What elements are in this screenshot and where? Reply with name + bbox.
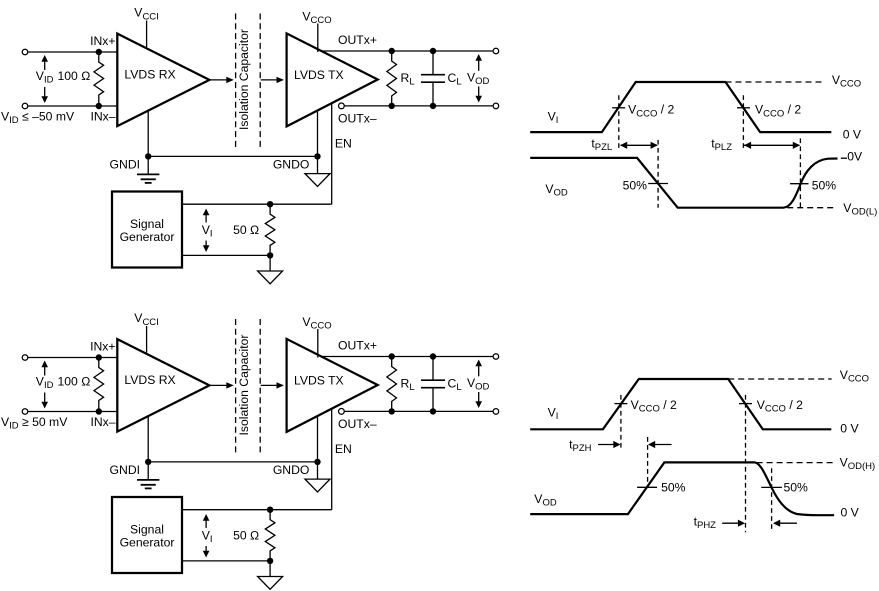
label VID (circuit 1) [34,70,55,87]
dashed marker VOD falling 50% (timing 1) [657,140,659,208]
svg-text:GNDO: GNDO [273,158,310,172]
LVDS RX amplifier U1a (circuit 1) [117,34,209,127]
wire: generator bottom output (circuit 2) [182,560,270,562]
node CL bottom (circuit 1) [430,103,436,109]
VI measurement arrow (circuit 1) [205,214,207,248]
tick 50% rising (timing 1) [790,183,808,185]
wire: OUTx+ (circuit 1) [321,50,492,52]
label VI (circuit 1) [200,223,213,241]
dashed marker VOD rising 50% (timing 1) [799,138,801,207]
svg-text:EN: EN [335,442,352,456]
svg-text:100 Ω: 100 Ω [58,69,91,83]
VI measurement arrow (circuit 2) [205,519,207,553]
resistor 50 Ohm (circuit 1) [265,204,275,255]
node RL bottom (circuit 1) [389,103,395,109]
resistor RL (circuit 2) [387,357,397,412]
tick VCCO/2 rising (timing 1) [612,107,625,109]
tick 50% falling (timing 2) [761,486,782,488]
chassis ground below 50 Ohm (circuit 2) [269,561,271,577]
node 50 Ohm bottom (circuit 1) [267,252,273,258]
dashed level VOD(L) (timing 1) [787,207,836,209]
svg-text:INx–: INx– [90,110,115,124]
label VID (circuit 2) [34,376,55,393]
svg-text:INx–: INx– [90,415,115,429]
tPZH arrow right (timing 2) [654,444,672,446]
svg-text:EN: EN [335,137,352,151]
OUTx- inversion bubble (circuit 1) [339,103,345,109]
wire: TX ground lead (circuit 1) [317,110,319,156]
node INx- junction (circuit 2) [96,408,102,414]
earth ground GNDI (circuit 1) [147,156,149,174]
svg-text:100 Ω: 100 Ω [58,375,91,389]
svg-text:Isolation Capacitor: Isolation Capacitor [237,29,251,130]
LVDS TX amplifier U2b (circuit 2) [287,339,378,432]
wire: TX ground lead (circuit 2) [317,416,319,462]
tick 50% rising (timing 2) [637,486,657,488]
wire: generator bottom output (circuit 1) [182,254,270,256]
svg-text:INx+: INx+ [90,340,115,354]
chassis ground GNDO (circuit 1) [317,156,319,173]
node INx+ junction (circuit 2) [96,354,102,360]
VCCI supply wire (circuit 2) [146,326,148,353]
svg-text:Signal: Signal [130,523,164,537]
dashed marker VI falling 50% (timing 1) [742,95,744,148]
tick VCCO/2 falling (timing 1) [737,107,750,109]
label VI (circuit 2) [200,528,213,546]
wire: RX ground lead (circuit 1) [147,110,149,156]
wire: signal RX to isolation (circuit 1) [209,79,227,81]
tick 50% falling (timing 1) [648,183,668,185]
dashed level VCCO (timing 2) [728,378,832,380]
dashed marker VOD falling 50% (timing 2) [771,468,773,532]
VID measurement arrow (circuit 2) [44,366,46,404]
wire: signal isolation to TX (circuit 2) [261,384,278,386]
node INx+ junction (circuit 1) [96,49,102,55]
svg-text:50%: 50% [661,481,686,495]
isolation barrier dashed line left (circuit 2) [235,319,237,453]
node CL bottom (circuit 2) [430,408,436,414]
wire: IN+ input wire (circuit 2) [28,357,117,359]
wire: OUTx- (circuit 1) [345,105,493,107]
svg-text:0 V: 0 V [843,128,862,142]
wire: IN- input wire (circuit 2) [28,411,117,413]
resistor 50 Ohm (circuit 2) [265,510,275,561]
tick VCCO/2 rising (timing 2) [614,403,627,405]
svg-text:Generator: Generator [120,230,175,244]
svg-text:GNDI: GNDI [110,463,140,477]
dashed level VCCO (timing 1) [726,81,825,83]
node RL bottom (circuit 2) [389,408,395,414]
svg-text:OUTx–: OUTx– [338,111,377,125]
VCCO supply wire (circuit 1) [317,24,319,53]
label VOD (circuit 1) [466,71,490,87]
node 50 Ohm top (circuit 1) [267,201,273,207]
resistor 100 Ohm (circuit 2) [94,358,104,412]
dashed marker VI rising 50% (timing 2) [620,395,622,449]
input terminal INx- (circuit 1) [22,103,28,109]
svg-text:OUTx+: OUTx+ [338,339,377,353]
wire: generator top output to EN (circuit 1) [182,203,332,205]
dashed level 0V end (timing 1) [841,157,847,159]
svg-text:GNDO: GNDO [273,463,310,477]
svg-text:50%: 50% [623,179,648,193]
waveform VI trace (timing 2) [530,379,831,429]
svg-text:50%: 50% [812,179,837,193]
tPLZ dimension arrow (timing 1) [744,144,800,146]
svg-text:GNDI: GNDI [110,158,140,172]
signal generator box (circuit 2) [112,497,182,573]
waveform VOD trace (timing 2) [530,462,834,515]
node GNDI (circuit 1) [145,153,151,159]
wire: IN- input wire (circuit 1) [28,105,117,107]
output terminal + (circuit 1) [493,48,499,54]
svg-text:INx+: INx+ [90,34,115,48]
wire: GNDI to GNDO (circuit 1) [148,155,317,157]
VCCO supply wire (circuit 2) [317,329,319,358]
svg-text:50 Ω: 50 Ω [233,529,259,543]
LVDS TX amplifier U1b (circuit 1) [287,33,378,126]
wire: signal isolation to TX (circuit 1) [261,79,278,81]
isolation barrier dashed line right (circuit 2) [259,319,261,453]
wire: GNDI to GNDO (circuit 2) [148,461,317,463]
waveform VOD trace (timing 1) [530,158,837,208]
label VOD (circuit 2) [466,376,490,392]
wire: generator top output to EN (circuit 2) [182,509,332,511]
capacitor CL (circuit 1) [432,51,434,74]
node RL top (circuit 2) [389,353,395,359]
waveform VI trace (timing 1) [530,82,831,132]
chassis ground GNDO (circuit 2) [317,462,319,479]
dashed marker VOD rising 50% (timing 2) [647,437,649,484]
svg-text:Signal: Signal [130,217,164,231]
svg-text:0V: 0V [847,150,863,164]
VOD measurement arrow (circuit 1) [478,59,480,98]
svg-text:LVDS RX: LVDS RX [124,373,175,387]
tPZL dimension arrow (timing 1) [621,144,658,146]
wire: EN (circuit 1) [331,103,333,204]
node 50 Ohm bottom (circuit 2) [267,558,273,564]
svg-text:Generator: Generator [120,536,175,550]
input terminal INx+ (circuit 1) [22,49,28,55]
resistor RL (circuit 1) [387,51,397,106]
wire: IN+ input wire (circuit 1) [28,51,117,53]
tPHZ arrow (timing 2) [722,522,739,524]
LVDS RX amplifier U2a (circuit 2) [117,339,209,432]
wire: EN (circuit 2) [331,409,333,510]
dashed marker VI rising 50% (timing 1) [618,95,620,148]
chassis ground below 50 Ohm (circuit 1) [269,255,271,271]
svg-text:50%: 50% [784,481,809,495]
input terminal INx+ (circuit 2) [22,355,28,361]
capacitor CL (circuit 2) [432,357,434,380]
svg-text:OUTx+: OUTx+ [338,33,377,47]
svg-text:OUTx–: OUTx– [338,417,377,431]
svg-text:Isolation Capacitor: Isolation Capacitor [237,335,251,436]
OUTx- inversion bubble (circuit 2) [339,409,345,415]
svg-text:LVDS RX: LVDS RX [124,68,175,82]
node GNDO (circuit 2) [314,459,320,465]
VID measurement arrow (circuit 1) [44,60,46,98]
signal generator box (circuit 1) [112,192,182,268]
input terminal INx- (circuit 2) [22,409,28,415]
tPZH arrow (timing 2) [598,444,615,446]
resistor 100 Ohm (circuit 1) [94,52,104,106]
tick VCCO/2 falling (timing 2) [739,403,752,405]
isolation barrier dashed line left (circuit 1) [235,14,237,148]
wire: RX ground lead (circuit 2) [147,416,149,462]
wire: OUTx- (circuit 2) [345,410,493,412]
VCCI supply wire (circuit 1) [146,21,148,48]
node RL top (circuit 1) [389,48,395,54]
svg-text:50 Ω: 50 Ω [233,223,259,237]
output terminal - (circuit 1) [493,103,499,109]
dashed level VOD(H) (timing 2) [757,462,835,464]
node GNDO (circuit 1) [314,153,320,159]
output terminal + (circuit 2) [493,354,499,360]
node CL top (circuit 1) [430,48,436,54]
svg-text:LVDS TX: LVDS TX [294,68,344,82]
dashed marker VI falling 50% (timing 2) [745,395,747,532]
node INx- junction (circuit 1) [96,103,102,109]
isolation barrier dashed line right (circuit 1) [259,14,261,148]
node GNDI (circuit 2) [145,459,151,465]
VOD measurement arrow (circuit 2) [478,365,480,404]
svg-text:LVDS TX: LVDS TX [294,374,344,388]
wire: signal RX to isolation (circuit 2) [209,384,227,386]
tPHZ arrow right (timing 2) [780,522,797,524]
wire: OUTx+ (circuit 2) [321,356,492,358]
output terminal - (circuit 2) [493,409,499,415]
svg-text:0 V: 0 V [840,422,859,436]
earth ground GNDI (circuit 2) [147,462,149,480]
node CL top (circuit 2) [430,353,436,359]
svg-text:0 V: 0 V [841,505,860,519]
node 50 Ohm top (circuit 2) [267,507,273,513]
